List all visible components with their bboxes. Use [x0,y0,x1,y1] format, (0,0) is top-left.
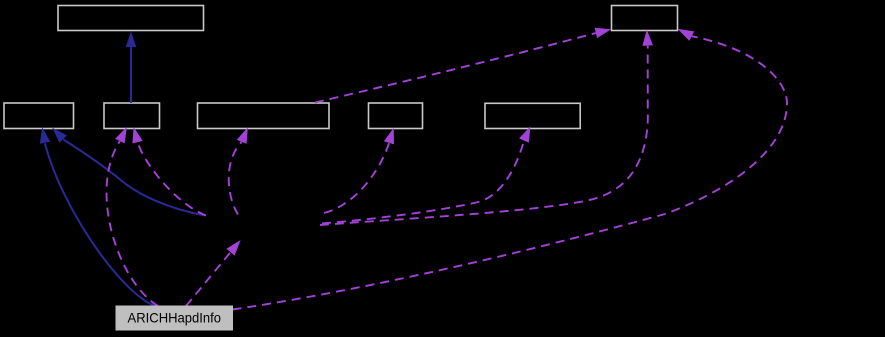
usage edge hidden node to E (dashed purple) [322,126,531,223]
usage edge hidden node to F bottom (dashed purple) [320,30,653,225]
node B (class box) [104,103,160,129]
node A (base class box) [4,103,74,129]
inheritance edge B to T (solid navy) [126,31,137,103]
node F (top-right class box) [612,6,678,31]
usage edge ARICHHapdInfo to B (dashed purple) [106,127,158,306]
usage edge ARICHHapdInfo to hidden node (dashed purple) [186,240,241,306]
usage edge C to F (dashed purple) [315,28,611,103]
inheritance edge hidden node to A (solid navy) [52,128,205,216]
node E (class box) [485,103,580,128]
svg-text:ARICHHapdInfo: ARICHHapdInfo [128,310,222,326]
node T (top-left base class box) [58,6,204,31]
node ARICHHapdInfo (current class, grey fill) [116,306,233,330]
node C (class box) [198,103,330,129]
node D (class box) [369,103,423,129]
usage edge hidden node to B (dashed purple) [132,127,206,216]
usage edge hidden node to D (dashed purple) [324,128,394,213]
usage edge ARICHHapdInfo to F right loop (dashed purple) [233,29,788,310]
usage edge hidden node to C (dashed purple) [229,127,248,214]
inheritance edge ARICHHapdInfo to A (solid navy) [40,127,155,306]
